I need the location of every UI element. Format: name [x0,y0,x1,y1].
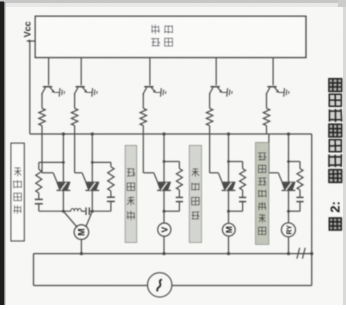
node rail junction [310,252,313,255]
Vcc arrow [30,40,36,42]
scan right edge shading [343,0,346,305]
node rail junction [80,252,83,255]
wire U1 to transistor Q3 [149,58,151,86]
scan left black strip [0,2,4,306]
wire R1 to bus [41,126,43,134]
ground at Q2 emitter [91,88,94,97]
valve V1 [163,211,165,223]
node bus junction 1 [62,132,65,135]
op-amp/MCU box U1 微处理器 microprocessor [35,16,306,57]
label box 洗衣电机 washing motor [11,143,24,241]
transistor Q2 [76,86,85,88]
RC snubber branch load 5 [287,160,290,163]
wire triac TR1 down [62,190,64,211]
capacitor C4 [176,196,183,198]
resistor R1 [39,108,45,125]
wire gate drive 3 [142,134,144,173]
wire bottom rail right [172,285,312,287]
RC snubber branch load 3 [163,160,166,163]
wire triac TR2 down [91,190,93,211]
wire gate drive 1 [41,134,43,173]
motor M1 洗衣电机 [74,225,89,240]
node rail junction [287,252,290,255]
triac TR3 [157,181,171,183]
capacitor C1 [35,198,43,200]
node line washing motor [39,210,71,212]
capacitor C2 [107,196,115,198]
node bus junction 2 [91,132,94,135]
wire R2 to bus [74,126,76,134]
ground at Q4 emitter [226,88,229,97]
node rail junction [227,252,230,255]
wire gate drive 4 [209,134,211,173]
title 图2: 洗衣机控制电路 [329,218,341,230]
label box 供水阀门 water inlet valve [125,145,137,242]
wire left drop [33,254,35,286]
resistor R7 [108,167,114,191]
resistor R4 [206,108,212,125]
triac TR1 [57,181,71,183]
wire AC bus horizontal [30,133,312,135]
snubber R6 tap left [39,161,64,163]
ground at Q1 emitter [58,88,61,97]
motor M2 排水电机 [228,211,230,223]
wire bus down to triac TR3 [163,134,165,182]
switch / break symbol on rail [297,248,300,259]
wire U1 to transistor Q2 [80,58,82,86]
triac TR5 [282,181,296,183]
RC snubber branch load 4 [227,160,230,163]
label 微处理器 (fake glyph strokes, rotated) [151,38,160,46]
wire bus down to triac TR2 [91,134,93,182]
wire triac TR5 down [288,190,290,211]
wire bus down to triac TR5 [288,134,290,182]
resistor R5 [263,108,269,125]
relay RY [288,211,290,223]
wire right riser bus to rail [311,134,313,254]
ground at Q3 emitter [160,88,163,97]
wire R5 to bus [266,126,268,134]
wire gate drive 5 [268,134,270,173]
wire collector to resistor R5 [266,93,268,108]
resistor R9 [240,169,246,190]
resistor R8 [176,169,182,190]
triac TR4 [222,181,236,183]
inductor L1 start winding [71,209,82,212]
capacitor C5 [239,196,246,198]
wire M1 to rail [80,239,82,253]
transistor Q1 [43,86,52,88]
wire U1 to transistor Q5 [272,58,274,86]
triac TR2 [85,181,99,183]
wire gate drive 2 [74,134,76,173]
wire return rail [34,253,312,255]
wire collector to resistor R2 [74,93,76,108]
wire bus down to triac TR4 [228,134,230,182]
wire Vcc vertical to bus [29,41,31,135]
AC source G1 [148,273,172,297]
wire U1 to transistor Q4 [215,58,217,86]
wire bus down to triac TR1 [62,134,64,182]
wire collector to resistor R1 [41,93,43,108]
scan top edge shading [0,0,346,3]
wire collector to resistor R4 [209,93,211,108]
label box 排水电机 drain motor [189,145,201,242]
wire right rise [311,254,313,286]
resistor R3 [140,108,146,125]
wire collector to resistor R3 [142,93,144,108]
wire triac TR4 down [228,190,230,211]
node bus junction 5 [287,132,290,135]
wire U1 to transistor Q1 [48,58,50,86]
wire diagonals to motor M1 [63,211,77,227]
wire triac TR3 down [163,190,165,211]
capacitor C3 start cap [85,207,87,215]
resistor R2 [71,108,77,125]
transistor Q3 [144,86,153,88]
wire bottom rail left [34,285,148,287]
resistor R6 [36,169,42,193]
snubber R7 tap right [92,161,111,163]
capacitor C6 [296,196,303,198]
wire R4 to bus [209,126,211,134]
node bus junction 4 [227,132,230,135]
wire R3 to bus [142,126,144,134]
resistor R10 [297,169,303,190]
node bus junction 3 [162,132,165,135]
label box 自动关闭继电器 auto shutoff relay [256,142,269,244]
node rail junction [162,252,165,255]
transistor Q5 [267,86,276,88]
transistor Q4 [211,86,220,88]
ground at Q5 emitter [283,88,286,97]
